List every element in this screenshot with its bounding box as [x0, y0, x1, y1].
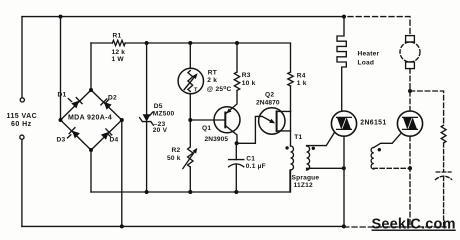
- svg-text:20 V: 20 V: [153, 127, 168, 134]
- capacitor C1: [229, 159, 244, 161]
- node DC+ rail / R3 branch: [235, 41, 239, 45]
- svg-text:Q1: Q1: [202, 125, 211, 132]
- svg-text:T: T: [194, 88, 198, 94]
- wire DC+ rail y43: [91, 43, 291, 72]
- transformer T1 primary phase dot: [285, 146, 288, 149]
- wire D5 branch upper: [146, 43, 148, 114]
- diode D3: [72, 131, 80, 139]
- wire snubber top dashed: [410, 91, 444, 125]
- svg-text:D3: D3: [57, 137, 66, 144]
- node DC- rail / D5 branch: [145, 190, 149, 194]
- node DC- rail / R2: [188, 190, 192, 194]
- wire top AC rail: [22, 16, 344, 18]
- svg-text:MDA 920A-4: MDA 920A-4: [68, 115, 112, 122]
- svg-text:0.1 µF: 0.1 µF: [246, 163, 266, 170]
- svg-text:Load: Load: [358, 59, 375, 66]
- resistor R4: [288, 72, 293, 86]
- svg-text:2N6151: 2N6151: [360, 120, 386, 127]
- wire coil to triac2 gate: [374, 134, 401, 148]
- transistor Q1 base bar: [224, 113, 226, 128]
- wire RT to R2: [189, 94, 191, 147]
- wire T1 primary bottom: [290, 170, 292, 192]
- resistor R1: [112, 40, 125, 45]
- wire DC- rail y192: [91, 170, 290, 192]
- rheostat R2: [188, 147, 193, 167]
- node Q1 collector / C1 / Q2 emitter: [235, 141, 239, 145]
- wire left column upper: [21, 17, 23, 98]
- node motor / snubber junction: [408, 89, 412, 93]
- svg-text:2N3905: 2N3905: [205, 136, 229, 143]
- svg-text:C1: C1: [246, 156, 255, 163]
- svg-text:MZ500: MZ500: [153, 111, 175, 118]
- transformer T1 secondary: [307, 146, 310, 170]
- svg-text:1 k: 1 k: [297, 80, 307, 87]
- wire T1 secondary top to triac gate: [307, 132, 335, 146]
- wire snubber bottom dashed: [443, 176, 445, 227]
- svg-text:D5: D5: [154, 103, 163, 110]
- svg-text:Q2: Q2: [265, 92, 274, 99]
- svg-text:2 k: 2 k: [207, 77, 217, 84]
- svg-text:60 Hz: 60 Hz: [11, 121, 32, 128]
- motor brush boxes: [406, 36, 415, 42]
- svg-text:1 W: 1 W: [112, 56, 125, 63]
- svg-text:R1: R1: [113, 33, 122, 40]
- zener diode D5: [143, 114, 151, 121]
- transistor Q1 collector: [225, 126, 237, 144]
- thermistor RT element: [188, 71, 193, 92]
- node bridge top vertex: [89, 88, 93, 92]
- wire Q1 base: [190, 119, 225, 121]
- resistor snubber R: [441, 125, 446, 143]
- node bridge right vertex: [120, 118, 124, 122]
- wire R2 lower: [189, 167, 191, 192]
- wire triac1 lower: [343, 136, 345, 226]
- capacitor snubber dashed: [436, 171, 451, 173]
- node bridge bottom vertex: [89, 148, 93, 152]
- node RT-R2 / Q1 base: [188, 118, 192, 122]
- wire motor bottom dashed: [409, 69, 411, 111]
- wire R3 to Q1 emitter: [225, 91, 237, 115]
- heater load element: [337, 17, 346, 112]
- resistor R3: [234, 72, 239, 91]
- svg-text:Heater: Heater: [358, 50, 380, 57]
- svg-text:11Z12: 11Z12: [294, 182, 313, 189]
- wire bottom rail solid: [22, 225, 344, 227]
- wire coil bottom dashed: [374, 167, 410, 170]
- coil remote phase dot: [378, 148, 381, 151]
- wire bridge top to DC+ rail: [90, 43, 92, 90]
- wire D5 branch lower: [146, 122, 148, 192]
- wire C1 lower: [235, 165, 237, 192]
- wire C1 upper: [235, 143, 237, 159]
- svg-text:@ 25oC: @ 25oC: [207, 85, 232, 93]
- wire T1 secondary bottom: [307, 168, 344, 170]
- svg-text:12 k: 12 k: [112, 49, 126, 56]
- transistor Q1 circle: [214, 107, 240, 133]
- transformer T1 primary: [291, 146, 294, 170]
- svg-text:Sprague: Sprague: [292, 175, 320, 182]
- node triac2 / remote coil junction: [408, 166, 412, 170]
- node DC- rail / C1: [234, 190, 238, 194]
- wire R3 upper: [236, 43, 238, 72]
- svg-text:2N4870: 2N4870: [256, 99, 280, 106]
- node triac column / T1 secondary: [342, 166, 346, 170]
- svg-text:T1: T1: [294, 134, 302, 141]
- node bottom rail / triac column: [342, 224, 346, 228]
- svg-text:50 k: 50 k: [167, 155, 181, 162]
- triac Q4 symbol: [403, 117, 418, 129]
- svg-text:SeekIC.com: SeekIC.com: [372, 217, 456, 233]
- wire Q1 collector to Q2 emitter: [237, 116, 262, 143]
- wire bridge bottom to DC- rail: [90, 150, 92, 192]
- svg-text:D1: D1: [58, 91, 67, 98]
- diode D4: [101, 132, 109, 140]
- svg-text:10 k: 10 k: [242, 80, 256, 87]
- transistor Q2 circle: [259, 108, 285, 134]
- transformer T1 secondary phase dot: [312, 147, 315, 150]
- svg-text:D2: D2: [108, 94, 117, 101]
- terminal upper 115 VAC: [20, 98, 24, 102]
- wire R4 to Q2/T1: [290, 86, 292, 146]
- coil remote secondary: [371, 147, 374, 169]
- node junction top rail / heater column: [342, 15, 346, 19]
- node junction top rail / bridge branch: [59, 15, 63, 19]
- thermistor RT circle: [178, 68, 203, 93]
- svg-text:R2: R2: [172, 147, 181, 154]
- transistor Q2 base stubs: [277, 111, 291, 130]
- wire triac2 lower dashed: [409, 136, 411, 227]
- diode D2: [104, 102, 112, 110]
- diode D1: [71, 101, 79, 109]
- terminal lower 115 VAC: [20, 135, 24, 139]
- transistor Q1 emitter arrow: [226, 108, 231, 113]
- transistor Q2 emitter arrow: [262, 116, 272, 121]
- wire bridge right branch: [121, 120, 123, 226]
- transistor Q2 base bar: [276, 111, 278, 130]
- wire left column lower: [21, 139, 23, 226]
- triac Q3 2N6151 circle: [331, 111, 356, 136]
- motor armature circle: [400, 42, 420, 62]
- wire bridge left branch: [60, 17, 62, 120]
- node bottom rail / bridge right branch: [120, 224, 124, 228]
- svg-text:D4: D4: [110, 137, 119, 144]
- bridge diamond wires: [61, 90, 122, 150]
- wire top rail dashed to motor: [348, 17, 410, 36]
- svg-text:115 VAC: 115 VAC: [7, 113, 38, 120]
- node DC+ rail / RT branch: [188, 41, 192, 45]
- triac Q3 symbol: [337, 117, 352, 129]
- svg-text:RT: RT: [208, 70, 217, 77]
- triac Q4 circle: [397, 111, 422, 136]
- wire RT branch upper: [189, 43, 191, 68]
- svg-text:R3: R3: [242, 72, 251, 79]
- wire snubber mid dashed: [443, 143, 445, 172]
- wire bottom rail dashed: [344, 226, 446, 228]
- node bridge left vertex: [59, 118, 63, 122]
- node DC+ rail / D5 branch: [145, 41, 149, 45]
- svg-text:R4: R4: [297, 73, 306, 80]
